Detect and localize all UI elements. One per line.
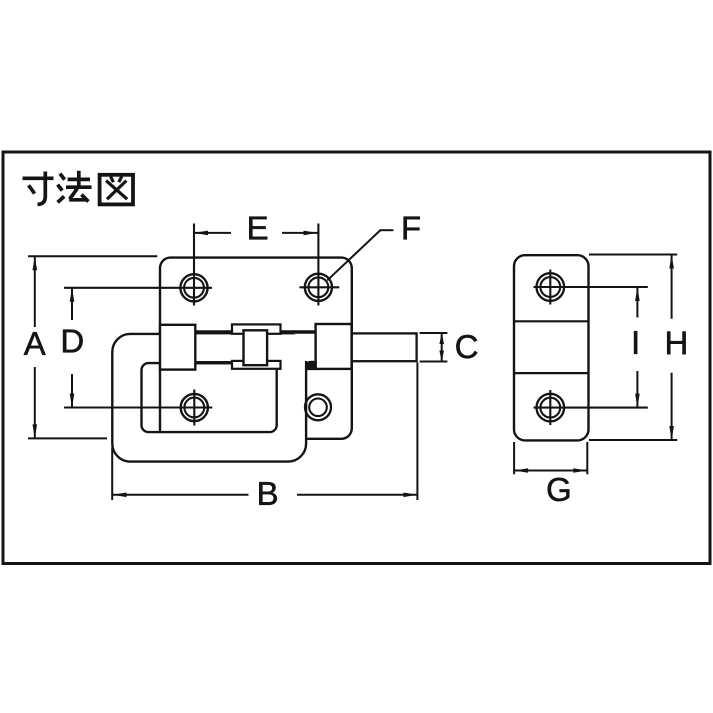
- plate left edge visible through window: [159, 363, 161, 432]
- dimension label F: [404, 217, 420, 240]
- hole top-left: [64, 224, 212, 306]
- I dimension: [636, 287, 638, 318]
- dimension label I: [634, 331, 637, 354]
- F leader: [380, 229, 393, 231]
- side plate: [514, 255, 589, 440]
- center block: [244, 330, 268, 365]
- dimension label A: [24, 332, 46, 355]
- left block: [160, 325, 195, 370]
- bridge top strap: [232, 324, 281, 333]
- G dimension: [513, 442, 515, 474]
- hole bottom-left: [64, 390, 212, 426]
- E dimension: [194, 232, 231, 234]
- plate body: [160, 258, 352, 439]
- bolt thick top line: [195, 330, 315, 333]
- handle window: [142, 363, 277, 432]
- kanji HOU: [58, 171, 92, 203]
- H dimension: [589, 254, 677, 256]
- title 寸法図 (drawn as strokes): [23, 171, 134, 205]
- dimension label C: [456, 335, 477, 358]
- bolt shaft white area (occludes handle top bar): [196, 334, 351, 361]
- dimension label G: [548, 478, 570, 501]
- dimension label B: [259, 482, 277, 505]
- kanji SUN: [23, 172, 54, 205]
- bridge bottom strap: [232, 361, 281, 369]
- side groove line upper: [514, 320, 589, 322]
- dimension label E: [249, 217, 267, 240]
- right block: [316, 324, 352, 369]
- hole top-right: [299, 224, 339, 306]
- A dimension: [28, 255, 157, 257]
- border frame: [3, 152, 710, 564]
- side groove line lower: [514, 372, 589, 374]
- dimension label D: [63, 330, 83, 353]
- bolt thick bottom line: [195, 361, 280, 364]
- kanji ZU: [100, 175, 133, 205]
- dimension label H: [667, 331, 685, 354]
- handle outer: [112, 334, 306, 462]
- channel elbow fillet: [305, 361, 316, 370]
- C dimension: [420, 332, 448, 334]
- side hole bottom: [534, 390, 648, 425]
- hole bottom-right (plain): [305, 394, 331, 420]
- B dimension: [111, 448, 113, 500]
- D dimension: [71, 288, 73, 320]
- bolt pin: [352, 333, 417, 361]
- side hole top: [534, 270, 648, 305]
